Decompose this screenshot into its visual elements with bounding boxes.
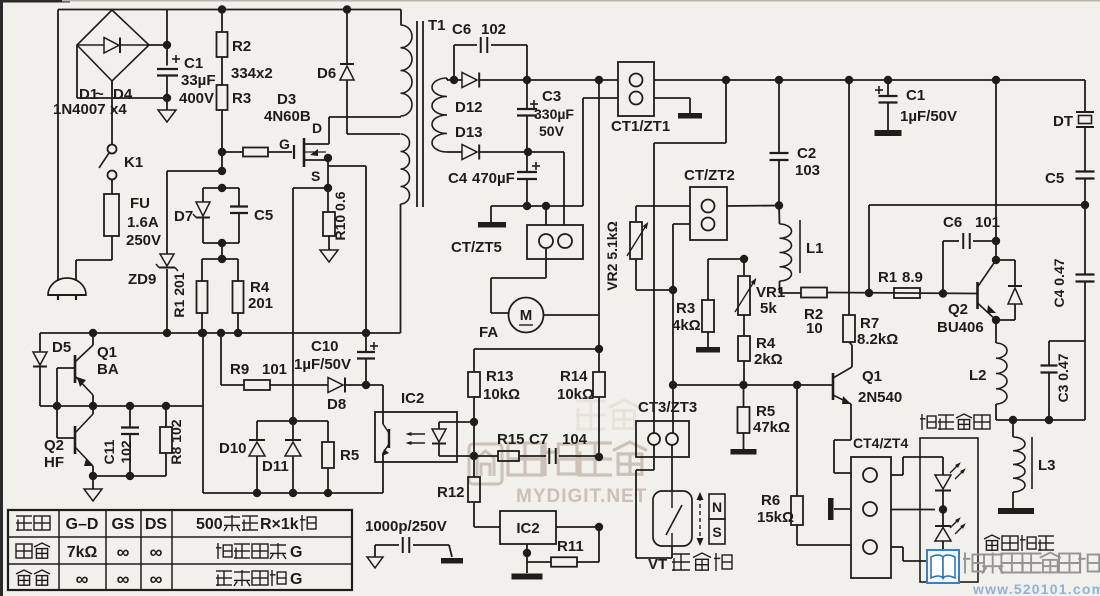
- svg-text:FU: FU: [130, 195, 150, 212]
- svg-text:R14: R14: [560, 368, 588, 385]
- svg-text:D6: D6: [317, 65, 336, 82]
- wire right drop x203: [202, 333, 204, 493]
- svg-text:15kΩ: 15kΩ: [757, 509, 794, 526]
- table row 3: [16, 570, 32, 586]
- connector CT3/ZT3: [636, 421, 689, 457]
- svg-text:HF: HF: [44, 454, 64, 471]
- svg-text:250V: 250V: [126, 232, 161, 249]
- svg-text:8.2kΩ: 8.2kΩ: [857, 331, 898, 348]
- node gate drive: [218, 148, 226, 156]
- capacitor C11 102: [129, 406, 131, 427]
- svg-text:C1: C1: [184, 55, 203, 72]
- wire DT feedback: [868, 205, 870, 293]
- node DT feedback: [1081, 201, 1089, 209]
- wire CT2 upper to L1 node: [727, 205, 779, 208]
- wire driver base line: [673, 384, 833, 386]
- svg-text:R12: R12: [437, 484, 465, 501]
- transistor Q2 HF: [74, 426, 77, 454]
- svg-text:R3: R3: [676, 300, 695, 317]
- resistor R2 10 (right): [801, 288, 827, 298]
- capacitor C4 0.47: [1084, 205, 1086, 274]
- transformer T1 feedback winding: [401, 134, 410, 204]
- transformer T1 secondary winding: [432, 78, 447, 152]
- capacitor C6 101 (right): [942, 241, 944, 294]
- svg-text:201: 201: [248, 295, 273, 312]
- svg-text:C6: C6: [452, 21, 471, 38]
- IC2 regulator: [500, 511, 556, 544]
- wire x673 drop: [672, 224, 674, 433]
- svg-text:R6: R6: [761, 492, 780, 509]
- watermark text right: [963, 553, 984, 574]
- capacitor C1 33uF 400V: [166, 10, 168, 66]
- watermark ghost: [576, 401, 606, 430]
- wire CT2 upper to VR2: [636, 205, 690, 207]
- svg-text:R9: R9: [230, 361, 249, 378]
- svg-text:1µF/50V: 1µF/50V: [900, 108, 957, 125]
- diode D5: [39, 333, 41, 352]
- svg-text:400V: 400V: [179, 90, 214, 107]
- LED indicator box: [920, 438, 978, 582]
- inductor L3: [1012, 420, 1014, 437]
- capacitor C1 1uF/50V (right): [887, 80, 889, 96]
- wire R3 node: [708, 258, 744, 260]
- piezo DT: [1084, 80, 1086, 112]
- svg-text:1000p/250V: 1000p/250V: [365, 518, 447, 535]
- svg-text:VR2 5.1kΩ: VR2 5.1kΩ: [604, 221, 620, 291]
- svg-text:R2: R2: [232, 38, 251, 55]
- svg-text:4N60B: 4N60B: [264, 108, 311, 125]
- ground triangle 1000p: [367, 557, 383, 568]
- svg-text:L2: L2: [969, 367, 987, 384]
- svg-text:D: D: [312, 120, 322, 136]
- svg-text:Q2: Q2: [44, 437, 64, 454]
- wire D6 to feedback winding: [347, 133, 400, 135]
- svg-text:10: 10: [806, 320, 823, 337]
- inductor L1 to R2 wire: [780, 292, 802, 294]
- wire rail drop to R7: [848, 80, 850, 315]
- svg-text:D12: D12: [455, 99, 483, 116]
- svg-text:ZD9: ZD9: [128, 271, 156, 288]
- svg-text:500: 500: [196, 516, 223, 533]
- svg-text:R7: R7: [860, 315, 879, 332]
- svg-text:CT4/ZT4: CT4/ZT4: [853, 435, 908, 451]
- resistor R1 8.9 (right): [894, 288, 920, 298]
- wire resonant bottom: [996, 419, 1085, 421]
- svg-text:Q1: Q1: [97, 344, 117, 361]
- svg-text:R1: R1: [878, 269, 897, 286]
- resistor R2: [218, 5, 226, 13]
- LED2 green: [942, 510, 944, 527]
- resistor R7 8.2k: [843, 315, 855, 342]
- svg-text:R10 0.6: R10 0.6: [332, 191, 348, 240]
- watermark text center: [508, 443, 542, 475]
- wire CT4 pin1 to LED1: [891, 474, 903, 476]
- ground bar R3: [696, 347, 720, 353]
- diode D12: [462, 73, 477, 88]
- svg-text:2N540: 2N540: [858, 389, 902, 406]
- svg-text:334x2: 334x2: [231, 65, 273, 82]
- svg-text:10kΩ: 10kΩ: [483, 386, 520, 403]
- svg-text:C10: C10: [311, 338, 339, 355]
- svg-text:FA: FA: [479, 324, 498, 341]
- wire motor to feed line: [544, 314, 600, 316]
- node opto collector: [470, 418, 478, 426]
- capacitor C5 (right): [1076, 170, 1095, 172]
- node D7/C5 bottom: [203, 242, 239, 244]
- damper diode Q2: [996, 259, 1015, 261]
- svg-text:102: 102: [481, 21, 506, 38]
- wire Q1 emitter to CT4: [850, 404, 852, 440]
- svg-text:D11: D11: [262, 458, 289, 475]
- svg-text:2kΩ: 2kΩ: [754, 351, 783, 368]
- svg-text:8.9: 8.9: [902, 269, 923, 286]
- svg-text:VT: VT: [648, 556, 667, 573]
- ground bar CT1/ZT1: [678, 113, 702, 119]
- gate resistor: [222, 151, 243, 153]
- wire rail drop to Q2: [995, 80, 997, 260]
- label green LED chinese: [984, 535, 1000, 551]
- svg-text:R3: R3: [232, 90, 251, 107]
- resistor R3 4k (right): [702, 300, 714, 332]
- wire ground line riser: [582, 98, 584, 206]
- svg-text:33µF: 33µF: [181, 72, 216, 89]
- ground below C1: [166, 98, 168, 110]
- capacitor C4 470uF: [526, 152, 528, 172]
- wire top rail: [58, 9, 401, 11]
- capacitor C10 1uF/50V: [365, 166, 367, 352]
- inductor L2: [995, 320, 997, 343]
- wire feedback bottom to rail: [400, 204, 402, 333]
- svg-text:R11: R11: [557, 538, 584, 555]
- measurement table: [8, 510, 352, 590]
- capacitor C6 102 (left): [453, 45, 455, 80]
- svg-text:D10: D10: [219, 440, 247, 457]
- wire feedback rail y333: [40, 332, 401, 334]
- svg-text:C6: C6: [943, 214, 962, 231]
- transistor Q2 BU406: [992, 256, 1000, 264]
- svg-text:D3: D3: [277, 91, 296, 108]
- svg-text:BU406: BU406: [937, 319, 984, 336]
- wire C3 branch: [1084, 341, 1086, 420]
- svg-text:101: 101: [262, 361, 287, 378]
- ground bar secondary: [490, 206, 492, 222]
- svg-text:R1 201: R1 201: [171, 272, 187, 317]
- capacitor C3 330uF 50V: [526, 80, 528, 109]
- svg-text:BA: BA: [97, 361, 119, 378]
- diode D6: [343, 5, 351, 13]
- resistor R11: [527, 561, 551, 563]
- svg-text:7kΩ: 7kΩ: [67, 544, 98, 561]
- resistor R15: [470, 452, 478, 460]
- ground bar IC2: [512, 574, 543, 580]
- connector CT4/ZT4: [851, 457, 891, 578]
- watermark book icon: [927, 550, 959, 583]
- bridge rectifier D1~D4 1N4007 x4: [77, 10, 149, 81]
- wire R6 to CT4: [797, 544, 851, 546]
- ground below Q2: [92, 476, 94, 489]
- node D7/C5 top: [218, 184, 226, 192]
- svg-text:50V: 50V: [539, 123, 565, 139]
- svg-text:C1: C1: [906, 87, 925, 104]
- diode D11: [292, 421, 294, 440]
- svg-text:G: G: [279, 136, 290, 152]
- svg-text:C5: C5: [1045, 170, 1064, 187]
- resistor R5 (left): [327, 421, 329, 442]
- svg-text:1N4007: 1N4007: [53, 101, 106, 118]
- ground bar CT4 pin2: [834, 508, 851, 510]
- wire drain to primary: [329, 116, 401, 118]
- svg-text:4kΩ: 4kΩ: [672, 317, 701, 334]
- svg-text:C4 0.47: C4 0.47: [1051, 258, 1067, 307]
- ground below R10: [320, 250, 338, 262]
- svg-text:DT: DT: [1053, 113, 1073, 130]
- svg-text:CT/ZT5: CT/ZT5: [451, 239, 502, 256]
- wire LED2 to CT4 pin3: [903, 560, 943, 562]
- svg-text:D7: D7: [174, 208, 193, 225]
- label reed switch chinese: [672, 554, 690, 571]
- zener ZD9: [160, 254, 174, 266]
- svg-text:MYDIGIT.NET: MYDIGIT.NET: [516, 486, 647, 507]
- svg-text:L1: L1: [806, 240, 824, 257]
- motor FA: [509, 298, 544, 333]
- resistor R4 2k (right): [738, 336, 750, 361]
- svg-text:DS: DS: [145, 516, 168, 533]
- wire R13/R14 top rail: [474, 348, 599, 350]
- wire CT2 lower to VR2 bottom: [673, 223, 690, 225]
- wire Q1/Q2 base link: [56, 368, 58, 438]
- svg-text:Q1: Q1: [862, 368, 882, 385]
- wire bridge DC minus: [76, 45, 78, 98]
- connector CT1/ZT1: [618, 62, 654, 116]
- wire rail y476: [93, 475, 166, 477]
- svg-text:T1: T1: [428, 17, 446, 34]
- svg-text:1µF/50V: 1µF/50V: [294, 356, 351, 373]
- svg-text:C5: C5: [254, 207, 273, 224]
- diode D13: [447, 151, 462, 153]
- svg-text:C7: C7: [529, 431, 548, 448]
- wire rail to CT2 column: [725, 80, 727, 143]
- frame scan edge: [0, 0, 3, 596]
- svg-text:www.520101.com: www.520101.com: [972, 581, 1100, 596]
- table header row: [16, 516, 32, 531]
- magnet N/S: [709, 494, 725, 519]
- wire rail to CT1/ZT1: [527, 79, 618, 81]
- svg-text:CT3/ZT3: CT3/ZT3: [638, 399, 697, 416]
- resistor R4 201 (left): [237, 259, 239, 281]
- node bridge+ / C1: [163, 41, 171, 49]
- transformer T1 primary winding: [400, 10, 402, 26]
- svg-text:330µF: 330µF: [534, 106, 574, 122]
- reed switch VT: [653, 491, 692, 546]
- svg-text:C3: C3: [542, 88, 561, 105]
- svg-text:102: 102: [118, 440, 134, 464]
- resistor R14 10k: [593, 372, 605, 397]
- svg-text:∞: ∞: [117, 542, 130, 562]
- transformer T1 core: [416, 21, 418, 207]
- wire bridge AC bottom to switch: [111, 81, 113, 144]
- capacitor C7 104: [519, 455, 546, 457]
- resistor R5 47k (right): [743, 385, 745, 407]
- wire CT/ZT5 to motor: [545, 248, 547, 259]
- svg-text:Q2: Q2: [948, 301, 968, 318]
- svg-text:CT1/ZT1: CT1/ZT1: [611, 118, 670, 135]
- wire CT3 right to reed: [671, 445, 673, 491]
- svg-text:R×1k: R×1k: [260, 516, 299, 533]
- resistor R13 10k: [473, 349, 475, 372]
- potentiometer VR1 5k: [743, 259, 745, 276]
- svg-text:∞: ∞: [150, 542, 163, 562]
- svg-text:GS: GS: [111, 516, 134, 533]
- ground bar L3: [998, 508, 1034, 514]
- node rectifier output: [523, 76, 531, 84]
- svg-text:M: M: [520, 307, 533, 324]
- svg-text:R13: R13: [486, 368, 514, 385]
- node D13 output: [524, 148, 532, 156]
- connector CT/ZT2: [690, 187, 727, 240]
- svg-text:47kΩ: 47kΩ: [753, 419, 790, 436]
- svg-text:D13: D13: [455, 124, 483, 141]
- svg-text:CT/ZT2: CT/ZT2: [684, 167, 735, 184]
- resistor R12: [473, 456, 475, 477]
- svg-text:C4: C4: [448, 170, 468, 187]
- wire main rail: [654, 79, 1085, 81]
- capacitor C5 (left): [238, 188, 240, 206]
- svg-text:G–D: G–D: [66, 516, 99, 533]
- svg-text:5k: 5k: [760, 300, 777, 317]
- fuse FU 1.6A 250V: [104, 194, 119, 236]
- AC plug: [48, 278, 86, 295]
- svg-text:R4: R4: [250, 279, 270, 296]
- node LED junction: [939, 505, 947, 513]
- svg-text:L3: L3: [1038, 457, 1056, 474]
- svg-text:C2: C2: [797, 145, 816, 162]
- svg-text:G: G: [290, 571, 302, 588]
- svg-text:∞: ∞: [150, 569, 163, 589]
- wire IC2 out: [556, 526, 599, 528]
- table row 2: [16, 544, 32, 558]
- ground bar C1 right: [875, 130, 902, 136]
- connector CT/ZT5: [545, 206, 547, 225]
- svg-text:R5: R5: [340, 447, 359, 464]
- resistor R1 201 (left): [202, 258, 238, 260]
- node C1 minus: [163, 94, 171, 102]
- svg-text:R5: R5: [756, 403, 775, 420]
- svg-text:R4: R4: [756, 335, 776, 352]
- svg-text:IC2: IC2: [516, 520, 539, 537]
- resistor R8 102: [165, 406, 167, 427]
- magnet arrow dashed: [699, 497, 701, 541]
- svg-text:103: 103: [795, 162, 820, 179]
- node D8 output: [362, 381, 370, 389]
- ground bar R5: [731, 449, 757, 455]
- wire R9 branch: [220, 333, 222, 385]
- wire Q2 base line: [833, 293, 977, 294]
- wire left AC line: [57, 10, 59, 282]
- svg-text:K1: K1: [124, 154, 143, 171]
- svg-text:G: G: [290, 544, 302, 561]
- svg-text:∞: ∞: [76, 569, 89, 589]
- resistor R9 101: [221, 384, 244, 386]
- wire source node: [327, 158, 329, 212]
- wire IC2 gnd: [526, 544, 528, 573]
- wire rail y421: [257, 420, 328, 422]
- wire source to D11 string: [293, 187, 328, 189]
- transistor Q1 2N540: [832, 373, 835, 400]
- node secondary top: [447, 79, 462, 81]
- svg-text:C11: C11: [101, 439, 117, 464]
- ground bar 1000p: [441, 558, 463, 564]
- wire fuse to plug: [76, 259, 112, 261]
- wire long drop x654: [653, 143, 655, 433]
- svg-text:S: S: [712, 524, 721, 540]
- wire C4 bypass to connector: [528, 151, 564, 153]
- svg-text:1.6A: 1.6A: [127, 214, 159, 231]
- wire CT4 pin2 to LED node: [891, 509, 935, 511]
- svg-text:C3 0.47: C3 0.47: [1055, 353, 1071, 402]
- resistor R10 0.6: [323, 212, 335, 236]
- wire CT3 left to reed return: [653, 445, 655, 470]
- capacitor C3 0.47: [1041, 364, 1058, 366]
- wire rail y493: [203, 492, 383, 494]
- capacitor C2 103: [778, 80, 780, 153]
- svg-text:D5: D5: [52, 339, 71, 356]
- svg-text:470µF: 470µF: [472, 170, 515, 187]
- svg-text:S: S: [311, 168, 320, 184]
- svg-text:10kΩ: 10kΩ: [557, 386, 594, 403]
- svg-text:IC2: IC2: [401, 390, 424, 407]
- potentiometer VR2 5.1k: [635, 206, 637, 222]
- label red LED chinese: [920, 414, 936, 430]
- diode D7: [202, 188, 204, 202]
- wire rail y406: [40, 405, 203, 407]
- svg-text:R15: R15: [497, 431, 525, 448]
- node L1 top: [775, 201, 783, 209]
- diode D8: [328, 378, 343, 393]
- diode D10: [256, 421, 258, 440]
- svg-text:R8 102: R8 102: [168, 419, 184, 464]
- wire secondary ground line: [491, 205, 583, 207]
- svg-text:∞: ∞: [117, 569, 130, 589]
- resistor R3: [221, 57, 223, 85]
- wire to ZD9 branch: [167, 170, 222, 172]
- watermark logo center: [469, 444, 502, 484]
- inductor L1: [778, 206, 781, 225]
- svg-text:D8: D8: [327, 396, 346, 413]
- svg-text:104: 104: [562, 431, 588, 448]
- switch K1: [108, 145, 117, 154]
- svg-text:N: N: [712, 499, 722, 515]
- wire motor feed down: [598, 80, 600, 372]
- LED1 red: [942, 457, 944, 475]
- transistor Q1 BA: [74, 355, 77, 383]
- resistor R6 15k: [796, 385, 798, 496]
- wire CT1/ZT1 lower to ground: [654, 97, 690, 99]
